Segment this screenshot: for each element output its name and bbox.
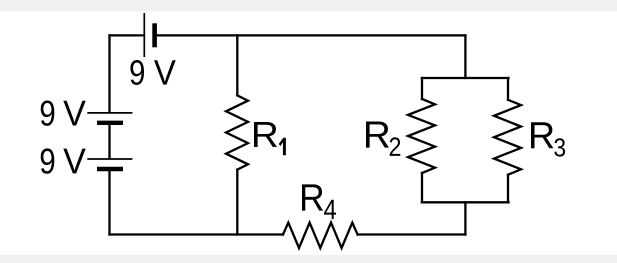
label 9 V for battery V2 - glyph 9: [41, 100, 55, 125]
resistor R1: [226, 95, 248, 169]
bottom toolbar strip: [0, 255, 617, 263]
label 9 V for battery V3 - glyph V: [63, 149, 85, 174]
label R2 - subscript 2: [390, 137, 401, 156]
wire: R3 bottom lead: [507, 175, 509, 203]
label R3 - subscript 3: [554, 138, 565, 156]
top toolbar strip: [0, 0, 617, 11]
resistor R3: [494, 100, 521, 175]
battery V1 long plate: [143, 13, 145, 57]
label 9 V for battery V1 - glyph 9: [130, 60, 144, 85]
battery V2 long plate: [87, 112, 132, 114]
wire: left rail top segment: [108, 35, 110, 112]
label 9 V for battery V2 - glyph V: [63, 101, 85, 126]
wire: left rail between batteries: [108, 125, 110, 158]
wire: R1 top lead: [236, 35, 238, 95]
battery V3 long plate: [87, 158, 132, 160]
wire: R3 top lead: [507, 78, 509, 100]
label R4 - subscript 4: [324, 200, 336, 219]
wire: right vertical drop into parallel pair: [464, 35, 466, 78]
label 9 V for battery V1 - glyph V: [154, 60, 176, 84]
wire: R2 bottom lead: [421, 173, 423, 202]
resistor R4: [283, 223, 358, 248]
wire: bottom rail right segment: [358, 233, 466, 235]
label R1 - glyph R: [254, 122, 277, 147]
wire: center drop from parallel pair to bottom rail: [464, 202, 466, 234]
label R3 - glyph R: [531, 122, 553, 148]
label 9 V for battery V3 - glyph 9: [41, 148, 55, 173]
wire: top horizontal segment from battery to right corner: [156, 34, 465, 36]
battery V2 short plate: [97, 121, 123, 125]
resistor R2: [408, 99, 435, 173]
battery V3 short plate: [97, 167, 123, 171]
wire: bottom rail left segment: [110, 233, 284, 235]
wire: parallel pair top bar: [422, 77, 509, 79]
battery V1 short plate: [152, 23, 157, 47]
wire: left rail bottom segment: [108, 171, 110, 235]
wire: R1 bottom lead: [236, 170, 238, 235]
wire: top-left horizontal segment: [110, 34, 145, 36]
label R4 - glyph R: [302, 184, 323, 210]
wire: R2 top lead: [421, 78, 423, 99]
wire: parallel pair bottom bar: [422, 201, 509, 203]
label R2 - glyph R: [366, 122, 389, 148]
label R1 - subscript 1: [279, 138, 286, 155]
